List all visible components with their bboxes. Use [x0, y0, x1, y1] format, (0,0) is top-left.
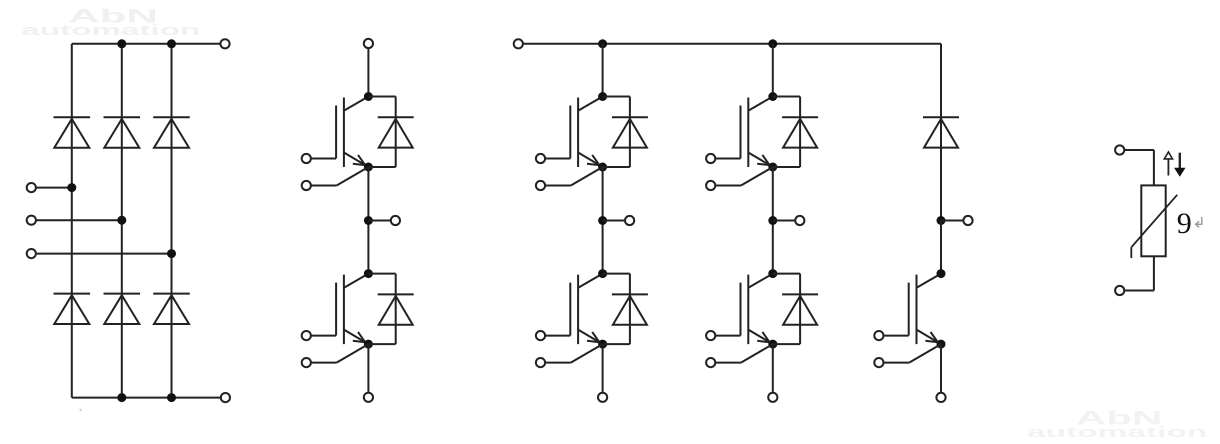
auxiliary emitter terminal of T3: [536, 167, 603, 190]
inverter DC+ terminal: [514, 39, 523, 48]
IGBT T2: [336, 269, 373, 349]
junction node AC1: [67, 183, 76, 192]
junction node on DC+ rail at column 2: [117, 39, 126, 48]
AC input terminal 1 wire: [27, 183, 72, 192]
auxiliary emitter terminal of T6: [706, 344, 773, 367]
watermark AbN automation (top left): [21, 5, 200, 39]
svg-text:9: 9: [1177, 207, 1192, 240]
wire rail to collector of T3: [602, 44, 604, 97]
wire rail corner down to brake diode: [940, 44, 942, 221]
paragraph return mark: [1196, 217, 1202, 227]
gate terminal of T3: [536, 154, 570, 163]
half-bridge midpoint terminal: [368, 216, 400, 225]
junction node on DC- rail at column 3: [167, 393, 176, 402]
AC input terminal 3 wire: [27, 249, 172, 258]
IGBT T1: [336, 92, 373, 172]
auxiliary emitter terminal of T7 (brake chopper): [874, 344, 941, 367]
rectifier column wire 1: [71, 44, 73, 398]
thermistor top terminal wire: [1115, 145, 1154, 185]
junction node on DC+ rail at column 3: [167, 39, 176, 48]
wire rail to collector of T5: [772, 44, 774, 97]
AC input terminal 2 wire: [27, 216, 122, 225]
bottom wire and terminal of T4: [598, 344, 607, 402]
wire emitter T3 to midpoint: [602, 167, 604, 274]
freewheeling diode D3u: [603, 97, 648, 168]
half-bridge bottom wire and terminal: [364, 344, 373, 402]
rectifier lower diode D4: [54, 294, 91, 324]
watermark AbN automation (bottom right): [1027, 407, 1207, 441]
bottom wire and terminal of T6: [768, 344, 777, 402]
thermistor R1 body: [1131, 185, 1177, 258]
freewheeling diode D4l: [603, 274, 648, 345]
junction node on DC- rail at column 2: [117, 393, 126, 402]
wire emitter T5 to midpoint: [772, 167, 774, 274]
IGBT T6: [741, 269, 778, 349]
half-bridge midpoint node: [364, 216, 373, 225]
rectifier upper diode D2: [104, 117, 141, 147]
bottom wire and terminal of T7: [936, 344, 945, 402]
IGBT T4: [570, 269, 607, 349]
brake midpoint terminal: [941, 216, 973, 225]
phase midpoint node at T3/T4: [598, 216, 607, 225]
svg-text:automation: automation: [1027, 424, 1207, 441]
rectifier DC+ rail wire: [72, 43, 225, 45]
rectifier column wire 2: [121, 44, 123, 398]
junction node rail/leg1: [598, 39, 607, 48]
IGBT T7 (brake chopper): [909, 269, 946, 349]
freewheeling diode D5u: [773, 97, 818, 168]
brake midpoint node: [937, 216, 946, 225]
gate terminal of T7 (brake chopper): [874, 331, 908, 340]
rectifier DC+ output terminal: [220, 39, 229, 48]
rectifier DC- rail wire: [72, 397, 226, 399]
gate terminal of T6: [706, 331, 740, 340]
IGBT T5: [741, 92, 778, 172]
freewheeling diode D7: [368, 97, 413, 168]
current direction down arrow: [1175, 153, 1185, 176]
auxiliary emitter terminal of T1: [302, 167, 369, 190]
junction node AC2: [117, 216, 126, 225]
gate terminal of T5: [706, 154, 740, 163]
rectifier upper diode D1: [54, 117, 91, 147]
freewheeling diode D8: [368, 274, 413, 345]
wire upper emitter to midpoint: [367, 167, 369, 274]
rectifier column wire 3: [171, 44, 173, 398]
thermistor bottom terminal wire: [1115, 256, 1154, 295]
auxiliary emitter terminal of T2: [302, 344, 369, 367]
gate terminal of T2: [302, 331, 336, 340]
auxiliary emitter terminal of T4: [536, 344, 603, 367]
phase output terminal at T3/T4: [603, 216, 635, 225]
svg-text:automation: automation: [21, 22, 200, 39]
gate terminal of T1: [302, 154, 336, 163]
rectifier DC- output terminal: [221, 393, 230, 402]
phase midpoint node at T5/T6: [768, 216, 777, 225]
brake diode D13: [923, 117, 959, 147]
junction node rail/leg2: [768, 39, 777, 48]
phase output terminal at T5/T6: [773, 216, 805, 225]
half-bridge top terminal: [364, 39, 373, 97]
gate terminal of T4: [536, 331, 570, 340]
auxiliary emitter terminal of T5: [706, 167, 773, 190]
IGBT T3: [570, 92, 607, 172]
rectifier lower diode D5: [104, 294, 141, 324]
rectifier lower diode D6: [153, 294, 190, 324]
wire midpoint to chopper collector: [940, 221, 942, 274]
current direction up arrow: [1164, 152, 1172, 176]
freewheeling diode D6l: [773, 274, 818, 345]
inverter DC+ rail wire: [518, 43, 941, 45]
stray speck: [79, 409, 81, 411]
rectifier upper diode D3: [153, 117, 190, 147]
junction node AC3: [167, 249, 176, 258]
